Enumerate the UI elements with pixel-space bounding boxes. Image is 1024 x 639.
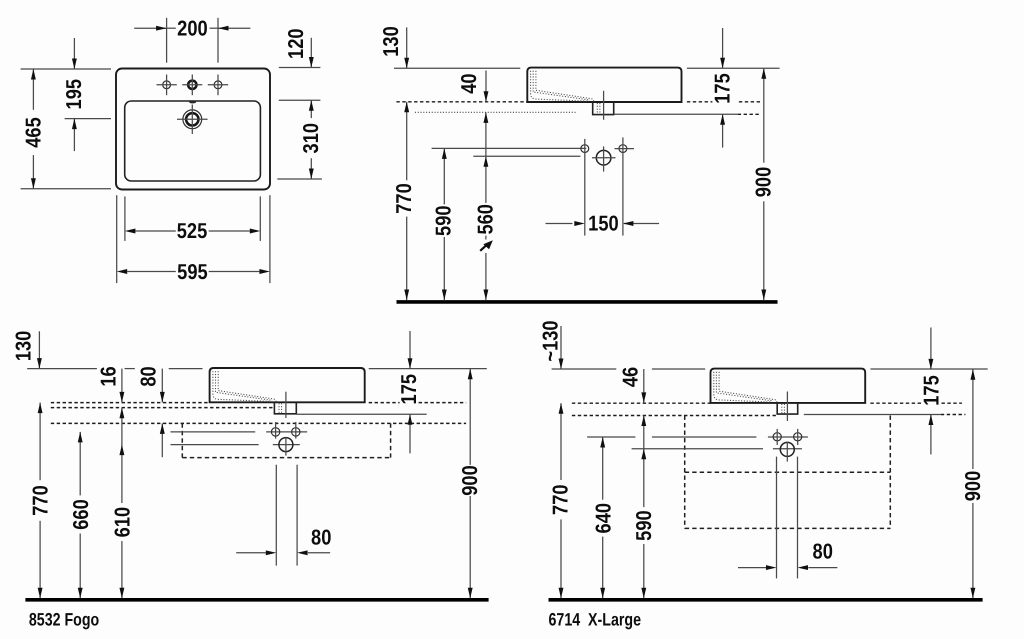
drain opening (183, 110, 202, 129)
svg-text:130: 130 (379, 26, 403, 57)
washbasin plan view outer rim 595x465 (116, 69, 270, 190)
svg-text:40: 40 (457, 73, 481, 93)
front view basin underside dotted line left (415, 111, 576, 113)
dimension 900 fogo rim height (469, 369, 471, 465)
dimension 770 counter height (406, 102, 408, 181)
fogo drain height extension line (171, 444, 259, 446)
dimension 175 rim to underside front (722, 28, 724, 68)
fogo trap underside line (296, 413, 426, 415)
x-large drain trap (777, 403, 798, 414)
svg-text:560: 560 (473, 204, 497, 235)
front view rim level line (394, 67, 520, 69)
front view drain trap (593, 102, 614, 115)
x-large countertop dashed line (572, 402, 711, 404)
dimension 900 x-large rim height (972, 369, 974, 469)
dimension 560 drain height (485, 112, 487, 202)
dimension 80 x-large supply spacing (776, 457, 778, 579)
washbasin plan view inner bowl 525x310 (125, 101, 261, 181)
svg-text:8532 Fogo: 8532 Fogo (29, 609, 99, 629)
x-large drain height extension line (632, 448, 763, 450)
front view floor line (397, 300, 778, 304)
svg-text:6714 X-Large: 6714 X-Large (549, 609, 641, 629)
fogo basin body (210, 368, 365, 402)
dimension 80 fogo supply spacing (275, 465, 277, 566)
dimension 900 rim height front (763, 68, 765, 162)
svg-text:175: 175 (919, 375, 943, 406)
front view basin body (527, 68, 681, 102)
svg-text:310: 310 (299, 123, 323, 154)
x-large right supply hole (794, 433, 802, 441)
front view basin underside line right (614, 113, 738, 115)
right faucet hole (214, 81, 222, 89)
fogo counter underside dashed line (51, 407, 275, 409)
front view overflow channel hidden profile (531, 71, 589, 101)
dimension 595 overall width (116, 195, 118, 283)
svg-text:640: 640 (592, 503, 616, 534)
fogo console dashed outline (181, 423, 183, 457)
fogo console top dashed line (51, 422, 466, 424)
fogo rim level line (27, 368, 97, 370)
x-large supply height extension line (587, 436, 635, 438)
dimension 770 x-large counter height (560, 403, 562, 480)
svg-text:525: 525 (177, 219, 208, 243)
fogo supply height extension line (171, 431, 256, 433)
svg-text:900: 900 (961, 471, 985, 502)
svg-text:120: 120 (284, 28, 308, 59)
x-large console top dashed line (572, 415, 777, 417)
x-large console dashed outline (684, 416, 686, 529)
dimension 200 faucet spacing (166, 18, 168, 63)
dimension 610 fogo drain height (119, 445, 124, 456)
svg-text:770: 770 (29, 485, 53, 516)
fogo floor line (25, 598, 488, 602)
dimension 640 x-large supply height (602, 437, 604, 500)
x-large trap underside line (804, 414, 941, 416)
fogo drain trap (274, 402, 296, 414)
center faucet hole (188, 81, 196, 89)
svg-text:175: 175 (397, 374, 421, 405)
svg-text:770: 770 (392, 183, 416, 214)
dimension 590 x-large drain height (641, 449, 646, 460)
fogo overflow channel hidden profile (213, 371, 271, 401)
svg-text:660: 660 (69, 499, 93, 530)
svg-text:130: 130 (12, 331, 36, 362)
svg-text:900: 900 (751, 167, 775, 198)
dimension 525 bowl width (124, 196, 126, 241)
overflow slot (189, 100, 196, 103)
front view right supply hole (619, 145, 627, 153)
svg-text:80: 80 (311, 526, 331, 550)
dimension 175 x-large rim to underside (930, 328, 932, 370)
fogo left supply hole (271, 428, 279, 436)
dimension 770 fogo counter height (39, 403, 41, 481)
svg-text:590: 590 (432, 205, 456, 236)
x-large drain centerline upper (786, 392, 788, 422)
dimension 590 supply height (443, 148, 445, 204)
svg-text:200: 200 (177, 16, 208, 40)
x-large basin body (711, 369, 866, 403)
svg-text:80: 80 (137, 366, 161, 386)
svg-text:595: 595 (177, 260, 208, 284)
front view countertop dashed line (396, 101, 526, 103)
svg-text:770: 770 (549, 484, 573, 515)
fogo right supply hole (292, 428, 300, 436)
front view drain centerline upper (603, 91, 605, 120)
svg-text:195: 195 (62, 79, 86, 110)
svg-text:150: 150 (588, 211, 619, 235)
svg-text:46: 46 (618, 367, 642, 387)
front view left supply hole (581, 145, 589, 153)
svg-text:16: 16 (97, 366, 121, 386)
front view drain connection (596, 150, 611, 165)
svg-text:~130: ~130 (538, 320, 562, 361)
x-large console shelf dashed line (685, 471, 891, 473)
dimension 660 fogo supply height (79, 432, 81, 496)
fogo countertop dashed line (51, 402, 210, 404)
svg-text:465: 465 (21, 117, 45, 148)
fogo drain connection (279, 438, 293, 452)
x-large rim level line (552, 368, 617, 370)
svg-text:590: 590 (632, 510, 656, 541)
x-large left supply hole (773, 433, 781, 441)
x-large floor line (549, 598, 983, 602)
recommended-height arrow symbol (480, 243, 488, 251)
svg-text:610: 610 (110, 507, 134, 538)
svg-text:175: 175 (711, 73, 735, 104)
left faucet hole (163, 81, 171, 89)
svg-text:80: 80 (813, 540, 833, 564)
x-large overflow channel hidden profile (714, 372, 772, 402)
fogo drain centerline upper (285, 392, 287, 418)
svg-text:900: 900 (458, 465, 482, 496)
x-large drain connection (780, 442, 794, 456)
dimension 175 fogo rim to underside (409, 331, 411, 369)
dimension 150 supply spacing (546, 223, 573, 225)
